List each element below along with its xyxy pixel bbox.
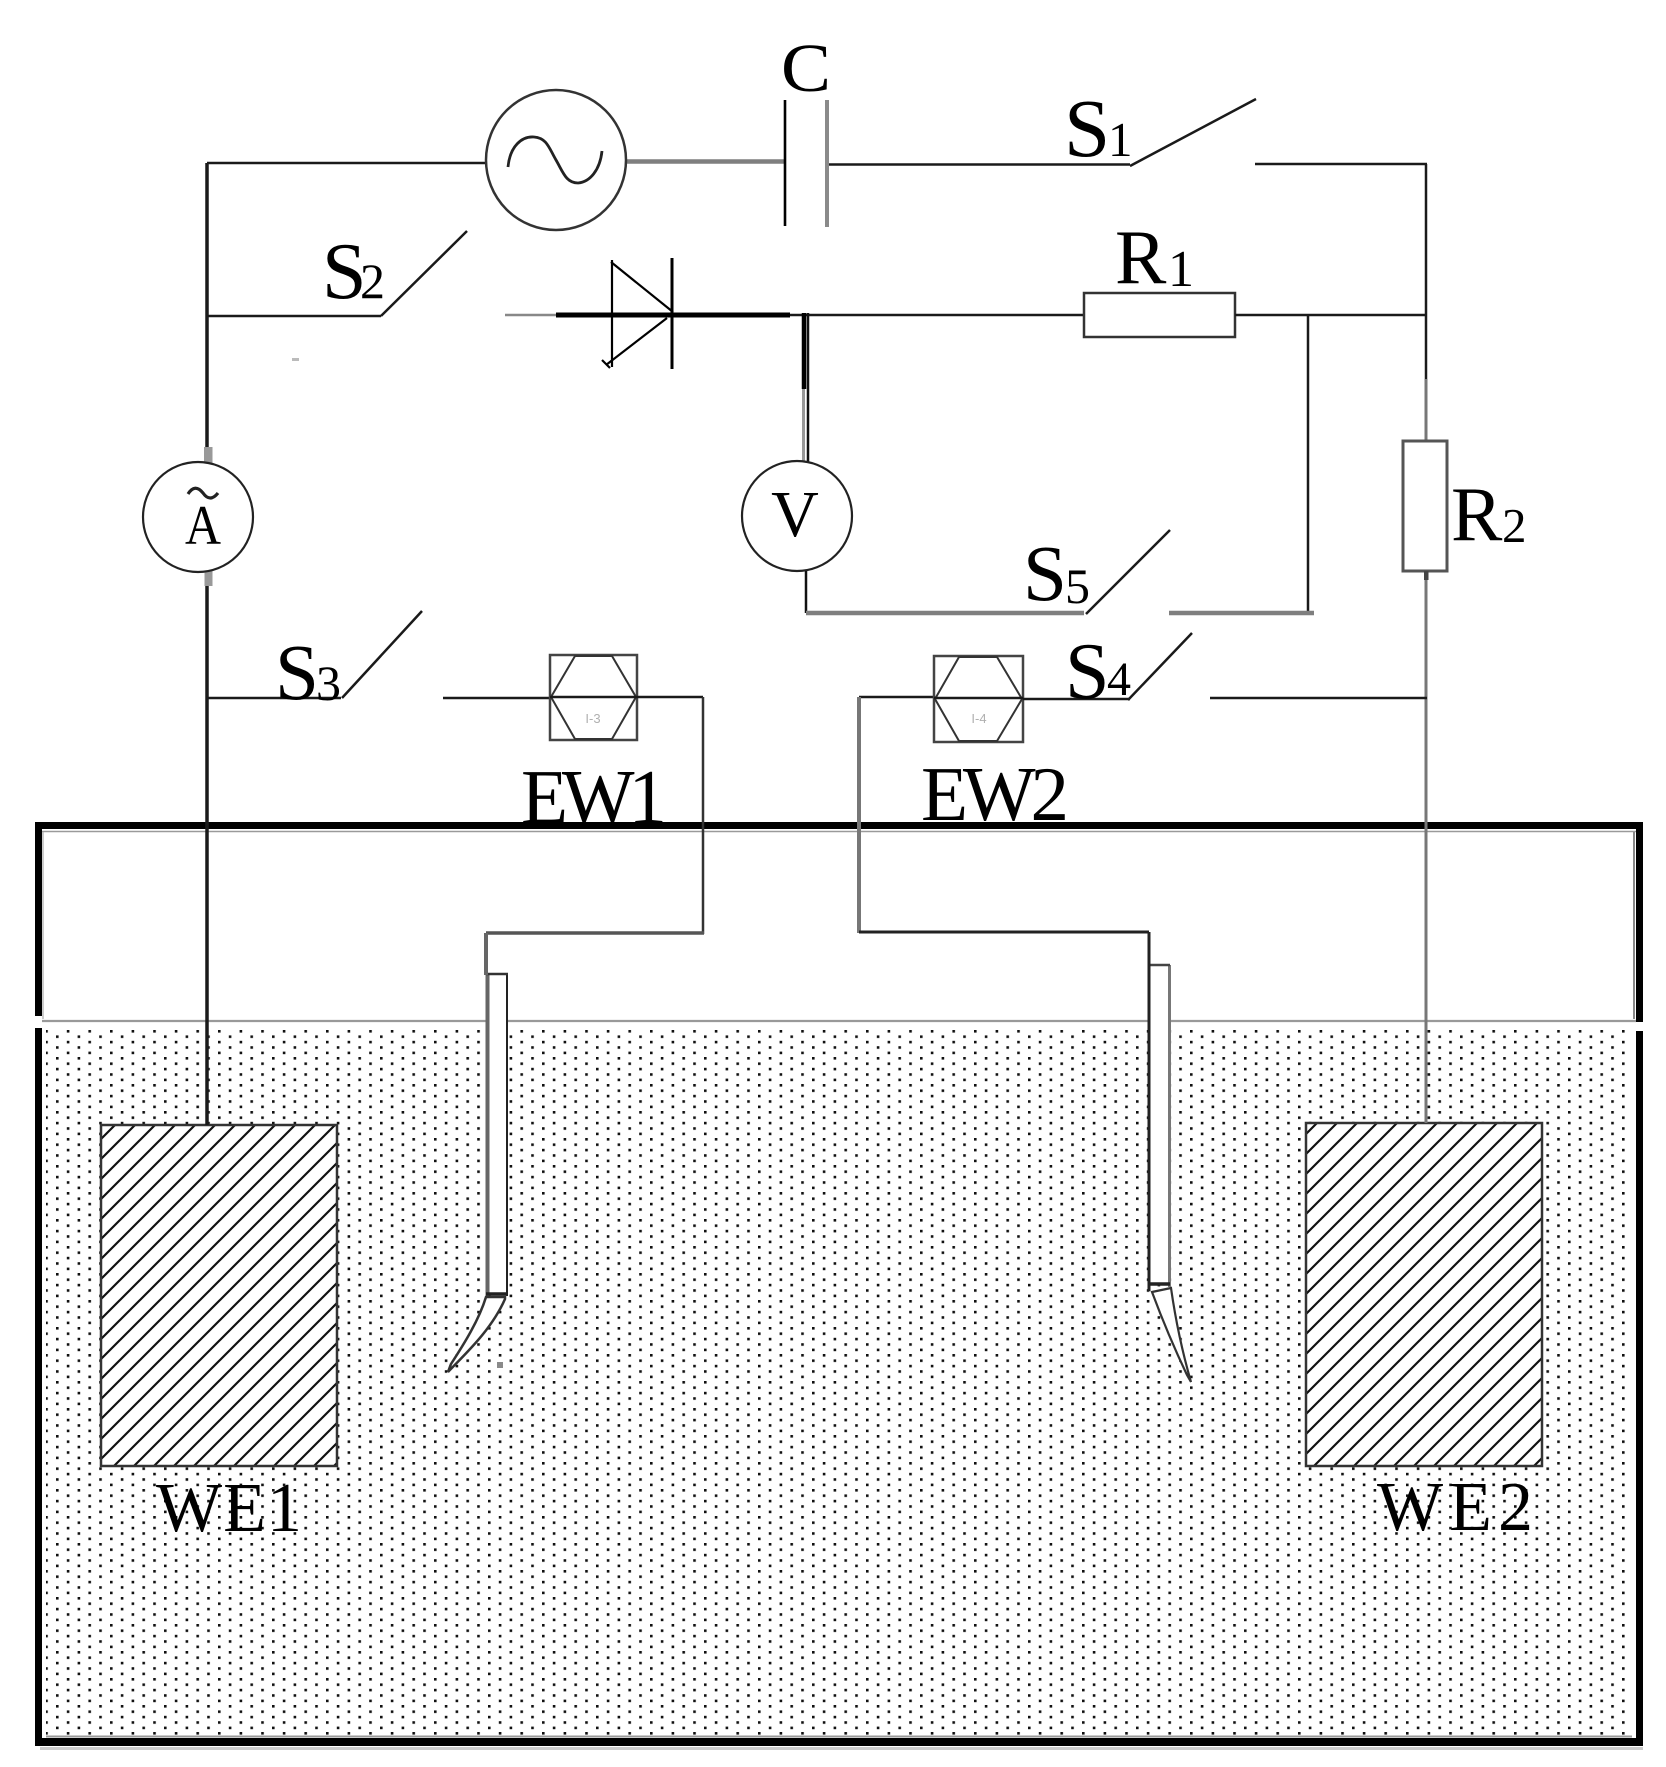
svg-text:S: S [1064, 82, 1110, 174]
svg-text:2: 2 [1502, 498, 1527, 553]
svg-text:EW1: EW1 [521, 754, 667, 840]
svg-text:A: A [185, 495, 221, 557]
svg-text:3: 3 [316, 655, 341, 711]
svg-text:5: 5 [1065, 558, 1090, 614]
svg-text:WE2: WE2 [1377, 1469, 1533, 1546]
svg-text:4: 4 [1107, 653, 1131, 706]
svg-text:WE1: WE1 [156, 1470, 302, 1547]
svg-text:S: S [1065, 628, 1110, 716]
svg-text:R: R [1451, 471, 1503, 557]
svg-text:S: S [275, 630, 319, 717]
svg-text:C: C [781, 30, 831, 106]
svg-text:I-4: I-4 [971, 711, 986, 726]
svg-text:R: R [1115, 214, 1167, 300]
svg-text:2: 2 [360, 253, 385, 309]
svg-text:V: V [771, 478, 819, 551]
svg-text:1: 1 [1168, 241, 1194, 298]
svg-text:EW2: EW2 [921, 751, 1069, 837]
svg-text:1: 1 [1108, 112, 1133, 167]
svg-text:I-3: I-3 [585, 711, 600, 726]
svg-text:S: S [1023, 531, 1067, 618]
